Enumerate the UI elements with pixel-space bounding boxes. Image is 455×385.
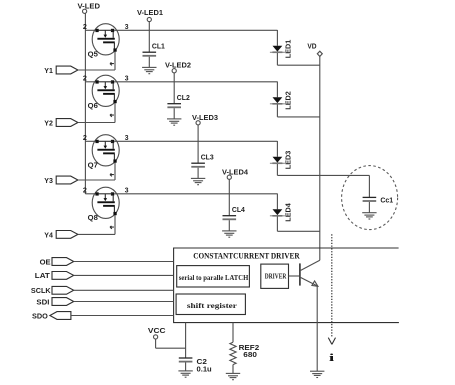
- wire CL2 to ground: [173, 108, 175, 119]
- svg-text:Q6: Q6: [88, 103, 98, 110]
- wire Y2 to Q6: [78, 122, 115, 124]
- wire source drop Q6: [114, 103, 116, 123]
- svg-text:Q5: Q5: [88, 51, 98, 58]
- label LED1: [285, 40, 292, 59]
- wire row3 cathode net to Cc1: [320, 174, 370, 176]
- svg-text:LED3: LED3: [285, 151, 292, 170]
- wire pin2 Q5 to rail: [85, 29, 95, 31]
- svg-text:C2: C2: [197, 359, 208, 366]
- connector Y1: [56, 66, 78, 74]
- wire row4 drop to LED4: [276, 194, 278, 210]
- ground emitter: [310, 371, 324, 377]
- wire VD rail: [319, 56, 321, 260]
- pin 1 marker Q7: [110, 173, 114, 176]
- capacitor Cc1: [363, 197, 377, 201]
- terminal V-LED4: [227, 175, 231, 179]
- transistor Q8: [92, 187, 119, 218]
- svg-text:V-LED2: V-LED2: [165, 63, 191, 70]
- block serial to parallel LATCH: [177, 266, 250, 287]
- svg-text:Q7: Q7: [88, 162, 98, 169]
- ground CL4: [222, 231, 236, 237]
- capacitor C2: [179, 358, 193, 362]
- wire source drop Q8: [114, 215, 116, 234]
- wire pin2 Q7 to rail: [85, 140, 95, 142]
- wire pin3 row line Q8 to LED: [114, 193, 277, 195]
- wire row to CL1: [148, 30, 150, 52]
- wire CL1 to ground: [148, 57, 150, 68]
- connector Y4: [56, 231, 78, 239]
- diode LED2: [270, 97, 285, 104]
- connector Y2: [56, 119, 78, 127]
- terminal VD: [317, 51, 322, 56]
- transistor Q6: [92, 75, 119, 106]
- IC block CONSTANT CURRENT DRIVER box: [174, 248, 399, 323]
- wire SCLK to driver box: [74, 289, 174, 291]
- wire V-LED3 to row: [197, 125, 199, 141]
- ground Cc1: [362, 213, 376, 219]
- wire LED2 cathode to VD rail: [276, 105, 278, 117]
- ground CL1: [142, 67, 156, 73]
- svg-text:Y2: Y2: [44, 121, 53, 128]
- ground C2: [178, 371, 192, 377]
- label LED4: [285, 203, 292, 222]
- ground REF2: [226, 373, 240, 379]
- svg-text:CONSTANTCURRENT DRIVER: CONSTANTCURRENT DRIVER: [193, 252, 300, 261]
- connector OE: [52, 258, 74, 266]
- diode LED1: [270, 46, 285, 53]
- svg-text:CL2: CL2: [177, 95, 190, 102]
- connector SCLK: [52, 286, 74, 294]
- wire source drop Q7: [114, 163, 116, 181]
- wire REF2 to ground: [232, 365, 234, 374]
- current arrow i dotted line: [331, 234, 333, 337]
- wire row2 drop to LED2: [276, 82, 278, 98]
- wire V-LED4 to row: [228, 179, 230, 193]
- svg-text:CL1: CL1: [152, 44, 165, 51]
- svg-text:0.1u: 0.1u: [197, 367, 212, 374]
- wire row3 drop to LED3: [276, 141, 278, 157]
- svg-text:CL4: CL4: [232, 207, 245, 214]
- svg-text:V-LED3: V-LED3: [192, 115, 218, 122]
- svg-text:680: 680: [243, 352, 257, 359]
- transistor Q output NPN: [300, 260, 320, 286]
- optional part boundary ellipse around Cc1: [342, 166, 398, 230]
- wire V-LED2 to row: [173, 73, 175, 82]
- svg-text:SDI: SDI: [36, 299, 49, 306]
- transistor Q5: [92, 24, 119, 55]
- svg-text:Y3: Y3: [44, 178, 53, 185]
- label LED2: [285, 91, 292, 110]
- wire pin2 Q8 to rail: [85, 193, 95, 195]
- svg-text:VD: VD: [307, 44, 316, 51]
- ground CL2: [167, 119, 181, 125]
- wire driver box to C2: [185, 323, 187, 358]
- wire VCC to C2: [155, 339, 157, 348]
- svg-text:LED2: LED2: [285, 91, 292, 110]
- wire row to CL3: [197, 141, 199, 163]
- svg-text:LED1: LED1: [285, 40, 292, 59]
- wire source drop Q5: [114, 52, 116, 71]
- svg-text:SCLK: SCLK: [31, 288, 51, 295]
- label LED3: [285, 151, 292, 170]
- terminal V-LED1: [147, 17, 151, 21]
- wire V-LED1 to row: [148, 22, 150, 30]
- wire SDI to driver box: [74, 301, 174, 303]
- wire row to CL2: [173, 82, 175, 104]
- svg-text:LED4: LED4: [285, 203, 292, 222]
- wire emitter to ground: [316, 286, 318, 371]
- wire row to CL4: [228, 194, 230, 216]
- svg-text:SDO: SDO: [32, 313, 48, 320]
- svg-text:serial to paralle LATCH: serial to paralle LATCH: [179, 274, 249, 282]
- svg-text:CL3: CL3: [201, 155, 214, 162]
- wire pin2 Q6 to rail: [85, 81, 95, 83]
- wire LAT to driver box: [74, 274, 174, 276]
- terminal V-LED: [83, 9, 87, 13]
- connector Y3: [56, 176, 78, 184]
- wire OE to driver box: [74, 261, 174, 263]
- wire LED4 cathode to VD rail: [276, 217, 278, 232]
- diode LED4: [270, 209, 285, 216]
- svg-text:DRIVER: DRIVER: [265, 273, 287, 281]
- wire V-LED rail: [84, 13, 86, 194]
- svg-text:VCC: VCC: [148, 328, 166, 335]
- svg-text:V-LED4: V-LED4: [222, 170, 248, 177]
- svg-text:Y1: Y1: [44, 68, 53, 75]
- svg-text:Y4: Y4: [44, 233, 53, 240]
- svg-text:Cc1: Cc1: [380, 198, 393, 205]
- connector SDO: [50, 312, 71, 320]
- svg-text:V-LED: V-LED: [78, 4, 101, 11]
- block DRIVER: [261, 264, 289, 288]
- wire pin3 row line Q7 to LED: [114, 140, 277, 142]
- pin 1 marker Q6: [110, 114, 114, 117]
- wire SDO from driver box: [71, 315, 174, 317]
- svg-text:shift register: shift register: [187, 302, 237, 310]
- wire Y4 to Q8: [78, 233, 115, 235]
- wire Y3 to Q7: [78, 179, 115, 181]
- diode LED3: [270, 157, 285, 164]
- svg-text:LAT: LAT: [35, 273, 51, 280]
- ground CL3: [191, 178, 205, 184]
- capacitor CL4: [223, 216, 237, 220]
- wire Y1 to Q5: [78, 69, 115, 71]
- wire CL3 to ground: [197, 168, 199, 179]
- wire LED1 cathode to VD rail: [276, 53, 278, 65]
- capacitor CL2: [167, 104, 181, 108]
- terminal V-LED3: [196, 121, 200, 125]
- wire LED3 cathode to VD rail: [276, 164, 278, 175]
- connector SDI: [52, 298, 74, 306]
- svg-text:REF2: REF2: [239, 345, 260, 352]
- svg-text:V-LED1: V-LED1: [137, 10, 163, 17]
- terminal VCC: [154, 335, 158, 339]
- wire pin3 row line Q5 to LED: [114, 29, 277, 31]
- wire row1 drop to LED1: [276, 30, 278, 46]
- block shift register: [176, 294, 245, 315]
- svg-text:OE: OE: [40, 259, 51, 266]
- wire C2 to ground: [185, 363, 187, 371]
- capacitor CL3: [191, 163, 205, 167]
- wire CL4 to ground: [228, 220, 230, 231]
- capacitor CL1: [143, 52, 157, 56]
- wire driver box to REF2: [232, 323, 234, 343]
- terminal V-LED2: [172, 69, 176, 73]
- pin 1 marker Q8: [110, 226, 114, 229]
- connector LAT: [52, 272, 74, 280]
- wire DRIVER to transistor base: [289, 275, 300, 277]
- svg-text:Q8: Q8: [88, 215, 98, 222]
- wire pin3 row line Q6 to LED: [114, 81, 277, 83]
- resistor REF2: [230, 342, 236, 364]
- pin 1 marker Q5: [110, 62, 114, 65]
- wire Cc1 to ground: [368, 202, 370, 213]
- transistor Q7: [92, 135, 119, 166]
- svg-text:i: i: [329, 352, 334, 364]
